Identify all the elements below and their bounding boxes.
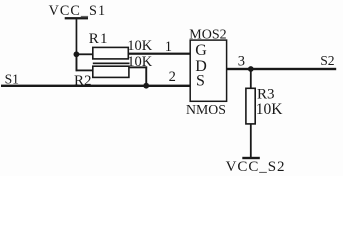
node junction of R2 with S1 bus — [143, 83, 149, 89]
value label 10K for R1 — [127, 38, 153, 54]
node junction at R1/R2 tap — [74, 51, 80, 57]
resistor R3 — [246, 86, 275, 124]
wire horizontal artifact line between R1 and R2 — [93, 63, 130, 65]
pin number 2 — [169, 69, 176, 85]
wire junction down to R3 top lead — [250, 69, 252, 88]
svg-text:R1: R1 — [89, 31, 109, 47]
wire S1 bus to MOSFET pin 2 — [1, 85, 190, 87]
pin number 3 — [238, 53, 245, 69]
svg-text:2: 2 — [169, 69, 176, 85]
pin number 1 — [165, 39, 172, 55]
svg-text:S2: S2 — [320, 53, 335, 68]
wire MOSFET pin 3 to S2 — [227, 68, 337, 70]
svg-text:10K: 10K — [127, 38, 153, 54]
wire VCC drop to R2 left lead — [76, 54, 93, 71]
wire VCC_S1 vertical drop — [76, 19, 78, 71]
svg-text:S: S — [196, 72, 205, 89]
wire R1 right lead to MOSFET pin 1 — [128, 53, 190, 55]
svg-text:S1: S1 — [5, 72, 19, 87]
net label S1 — [5, 72, 19, 87]
svg-text:NMOS: NMOS — [186, 102, 226, 117]
power symbol VCC_S1 — [49, 3, 107, 19]
transistor U1 MOS2 (NMOS) — [186, 28, 227, 118]
wire R3 bottom lead to VCC_S2 bar — [250, 124, 252, 158]
resistor R2 — [74, 66, 129, 89]
wire R2 right lead down to S1 bus — [129, 66, 147, 86]
value label 10K for R2 — [127, 54, 153, 70]
svg-text:VCC_S2: VCC_S2 — [226, 159, 286, 175]
wire junction to R1 left lead — [76, 53, 93, 55]
svg-text:10K: 10K — [256, 101, 283, 118]
value label 10K for R3 — [256, 101, 283, 118]
node junction of R3 with S2 wire — [248, 66, 254, 72]
power symbol VCC_S2 — [226, 157, 286, 175]
svg-text:VCC_S1: VCC_S1 — [49, 3, 107, 19]
resistor R1 — [89, 31, 129, 59]
svg-text:3: 3 — [238, 53, 245, 69]
net label S2 — [320, 53, 335, 68]
svg-text:G: G — [195, 42, 207, 59]
svg-text:1: 1 — [165, 39, 172, 55]
